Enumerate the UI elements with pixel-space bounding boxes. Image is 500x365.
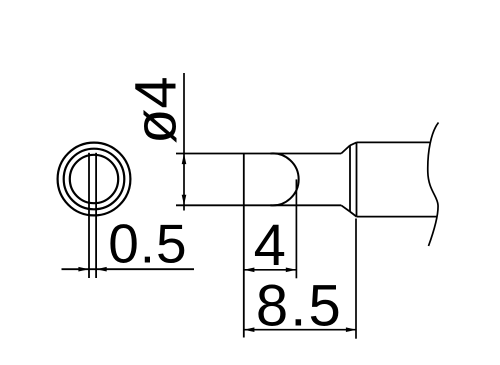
svg-text:8.5: 8.5: [256, 274, 343, 339]
svg-text:ø4: ø4: [123, 76, 188, 144]
svg-text:0.5: 0.5: [108, 213, 187, 275]
svg-text:4: 4: [254, 213, 286, 278]
